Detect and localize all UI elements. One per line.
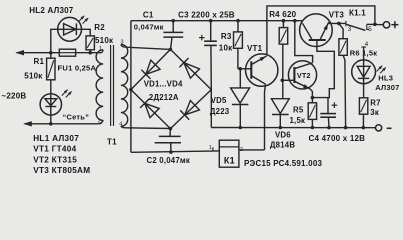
pin 1 primary top (99, 46, 102, 52)
label K1 pin 2 (240, 147, 243, 153)
svg-text:R4 620: R4 620 (269, 10, 296, 19)
legend line 4 (33, 166, 90, 175)
pin 2 primary bottom (98, 118, 101, 124)
junction HL2/R1 on top AC bus (49, 51, 53, 55)
label output plus (391, 21, 398, 28)
svg-text:VT1 ГТ404: VT1 ГТ404 (33, 145, 76, 154)
wire VT2 collector to plus bus (295, 21, 313, 63)
resistor R4 (279, 21, 288, 44)
junction VD5 cathode on minus wire (239, 126, 243, 130)
svg-text:VD5: VD5 (211, 96, 227, 105)
svg-text:С2 0,047мк: С2 0,047мк (147, 156, 191, 165)
resistor R1 (47, 53, 55, 80)
wire VT2 emitter to VT3 base (312, 41, 334, 98)
wire HL2 cathode to R2 (82, 29, 91, 36)
transformer T1 secondary winding (121, 44, 128, 126)
terminal output plus (383, 22, 389, 28)
svg-text:510к: 510к (24, 72, 43, 81)
capacitor C1 (163, 21, 183, 49)
label K1.1 (349, 9, 366, 18)
contact K1.1 pin4 stub (361, 47, 366, 60)
LED HL3 (352, 60, 386, 84)
svg-text:Д223: Д223 (210, 107, 230, 116)
zener diode VD6 (271, 99, 289, 127)
wire R7 to minus (362, 114, 364, 127)
LED HL2 (58, 16, 89, 41)
svg-text:10к: 10к (219, 43, 233, 52)
junction HL1 on bottom AC bus (49, 122, 53, 126)
svg-text:С4 4700 х 12В: С4 4700 х 12В (309, 134, 366, 143)
label VD5 type (210, 107, 230, 116)
capacitor C3 polarity (199, 35, 205, 41)
wire VT2 base (282, 79, 294, 81)
contact K1.1 pin3 tick (345, 21, 347, 26)
transistor VT1 (246, 54, 278, 86)
label K1 pin 1 (209, 145, 212, 151)
svg-text:FU1 0,25A: FU1 0,25A (58, 64, 97, 73)
junction C3 on top bus (209, 19, 213, 23)
capacitor C2 (155, 129, 181, 153)
capacitor C4 polarity (332, 102, 338, 108)
label ~220V (2, 92, 27, 101)
resistor R3 (234, 21, 243, 49)
label VT2 (297, 71, 311, 80)
svg-text:R5: R5 (293, 106, 304, 115)
junction C4 on minus wire (327, 126, 331, 130)
svg-text:VT3: VT3 (329, 10, 345, 19)
svg-text:R2: R2 (94, 23, 105, 32)
svg-text:HL3: HL3 (378, 74, 393, 83)
capacitor C4 (320, 98, 336, 127)
label HL3 type (375, 83, 399, 92)
label VT3 (329, 10, 345, 19)
label contact pin 3 (348, 26, 352, 33)
wire R6 to minus (343, 55, 346, 127)
junction VT1 base node (239, 67, 243, 71)
junction R5 on minus wire (311, 126, 315, 130)
junction VD6 cathode on minus wire (279, 126, 283, 130)
svg-text:4: 4 (365, 41, 369, 48)
LED HL1 mains indicator (40, 90, 72, 116)
svg-text:5: 5 (368, 26, 372, 33)
svg-text:VT3 КТ805АМ: VT3 КТ805АМ (33, 166, 90, 175)
diode VD1 (top-left arm) (141, 60, 160, 79)
wire VT1 collector to relay coil (265, 84, 266, 150)
junction bridge left corner (129, 88, 133, 92)
label C1 value (134, 23, 164, 32)
label C4 (309, 134, 366, 143)
contact K1.1 blade (346, 24, 366, 30)
svg-text:R7: R7 (370, 99, 380, 108)
junction R4 on top bus (282, 19, 286, 23)
label FU1 (58, 64, 97, 73)
wire R2 to AC top bus (89, 50, 91, 53)
label VD5 (211, 96, 227, 105)
label R2 value (95, 36, 114, 45)
fuse FU1 (59, 49, 75, 56)
svg-text:Т1: Т1 (107, 137, 117, 146)
wire VT3 emitter to contact (329, 22, 346, 24)
resistor R2 (86, 36, 94, 50)
wire R4 to VD6 anode (282, 44, 284, 99)
label VD6 (275, 131, 291, 140)
diode VD2 (top-right arm) (179, 58, 199, 78)
label Set (mains) (63, 113, 90, 122)
junction R6 on minus wire (344, 126, 348, 130)
label R4 (269, 10, 296, 19)
svg-text:1: 1 (99, 46, 102, 52)
svg-text:С3 2200 х 25В: С3 2200 х 25В (178, 10, 235, 19)
svg-text:3к: 3к (370, 108, 379, 117)
svg-text:0,047мк: 0,047мк (134, 23, 164, 32)
terminal output minus (376, 125, 382, 131)
legend line 2 (33, 145, 76, 154)
svg-text:1,5к: 1,5к (290, 116, 306, 125)
wire VT2 emitter node (310, 89, 312, 98)
svg-text:2: 2 (240, 147, 243, 153)
label VT1 (247, 44, 263, 53)
resistor R5 (308, 98, 316, 120)
svg-text:R1: R1 (34, 57, 45, 66)
bridge rectifier VD1-VD4 rhombus (131, 49, 211, 128)
junction sense/output node (373, 23, 377, 27)
svg-text:HL2 АЛ307: HL2 АЛ307 (29, 6, 73, 15)
resistor R7 (359, 84, 367, 115)
junction VT2 collector on top bus (293, 19, 297, 23)
label R1 value (24, 72, 43, 81)
wire R5 to minus (311, 119, 313, 127)
junction C2 on bottom DC rail (169, 150, 173, 154)
label R2 (94, 23, 105, 32)
contact K1.1 pin5 (367, 24, 369, 29)
wire R3 to VT1 base node (238, 48, 251, 69)
svg-text:“Сеть”: “Сеть” (63, 113, 90, 122)
wire R1 to HL1 (50, 80, 52, 94)
label C1 (143, 10, 154, 19)
wire DC plus bottom rail (131, 151, 219, 152)
label R7 (370, 99, 380, 108)
wire HL2 anode to AC top bus (51, 29, 58, 52)
svg-text:VD6: VD6 (275, 131, 291, 140)
wire relay K1 pin2 (239, 149, 265, 151)
diode VD4 (bottom-right arm) (180, 101, 199, 120)
junction R3 on top bus (236, 19, 240, 23)
wire VT1 emitter sense line over the top (267, 6, 375, 55)
transistor VT2 (288, 61, 316, 89)
wire DC plus riser (bridge left corner to buses) (130, 21, 132, 153)
svg-text:С1: С1 (143, 10, 154, 19)
wire AC line bottom with ~220V terminal arrow (23, 120, 103, 126)
junction VT2 emitter node (311, 96, 315, 100)
label relay type (244, 159, 323, 168)
svg-text:VT2: VT2 (297, 71, 311, 80)
wire contact to output plus (367, 23, 384, 25)
svg-text:~220В: ~220В (2, 92, 27, 101)
legend line 1 (33, 134, 79, 143)
label R6 (350, 49, 377, 58)
pin 4 secondary bottom (119, 122, 122, 128)
svg-text:К1.1: К1.1 (349, 9, 366, 18)
pin 3 secondary top (121, 40, 124, 46)
label K1 (224, 156, 235, 166)
wire R6 top lead (339, 23, 343, 38)
label R1 (34, 57, 45, 66)
wire AC line top with ~220V terminal arrow (15, 50, 103, 55)
svg-text:2Д212А: 2Д212А (149, 93, 179, 102)
transformer T1 primary winding (96, 50, 103, 121)
label VD1...VD4 (144, 79, 183, 88)
label output minus (387, 127, 392, 129)
diode VD3 (bottom-left arm) (140, 99, 159, 118)
wire relay K1 pin1 tick (212, 147, 214, 151)
junction R2 on top AC bus (88, 51, 92, 55)
label R5 (293, 106, 304, 115)
junction VT2 base tap (281, 79, 285, 83)
diode VD5 (231, 69, 250, 127)
label R3 value (219, 43, 233, 52)
svg-text:VD1...VD4: VD1...VD4 (144, 79, 183, 88)
svg-text:РЭС15 РС4.591.003: РЭС15 РС4.591.003 (244, 159, 323, 168)
junction bridge top corner (169, 48, 173, 52)
svg-text:3: 3 (348, 26, 352, 33)
junction R7 on minus wire (362, 126, 366, 130)
svg-text:R3: R3 (221, 32, 232, 41)
label contact pin 5 (368, 26, 372, 33)
label 2D212A (149, 93, 179, 102)
label C2 (147, 156, 191, 165)
svg-text:2: 2 (98, 118, 101, 124)
svg-text:VT1: VT1 (247, 44, 263, 53)
wire DC plus top bus (131, 20, 302, 22)
wire secondary pin3 to bridge AC input top (121, 44, 170, 49)
junction C1 on top bus (171, 19, 175, 23)
label R3 (221, 32, 232, 41)
svg-text:Д814В: Д814В (270, 141, 295, 150)
label T1 (107, 137, 117, 146)
resistor R6 (339, 39, 347, 56)
svg-text:HL1 АЛ307: HL1 АЛ307 (33, 134, 79, 143)
transistor VT3 (300, 14, 333, 47)
legend line 3 (33, 155, 77, 164)
capacitor C3 (204, 21, 217, 90)
label VD6 type (270, 141, 295, 150)
label HL3 (378, 74, 393, 83)
svg-text:VT2 КТ315: VT2 КТ315 (33, 155, 77, 164)
junction bridge bottom corner (169, 127, 173, 131)
junction R6 tap on emitter wire (337, 22, 341, 26)
svg-text:К1: К1 (224, 156, 235, 166)
wire HL1 to AC bottom bus (50, 115, 52, 124)
label R7 value (370, 108, 379, 117)
label HL2 AL307 (29, 6, 73, 15)
relay coil K1 (219, 140, 239, 167)
svg-text:510к: 510к (95, 36, 114, 45)
svg-text:АЛ307: АЛ307 (375, 83, 399, 92)
wire secondary pin4 to bridge AC input bottom (121, 126, 170, 128)
label C3 (178, 10, 235, 19)
label R5 value (290, 116, 306, 125)
wire DC minus (bridge right corner to output) (211, 90, 375, 128)
transformer T1 core (111, 45, 114, 126)
svg-text:1: 1 (209, 145, 212, 151)
label contact pin 4 (365, 41, 369, 48)
